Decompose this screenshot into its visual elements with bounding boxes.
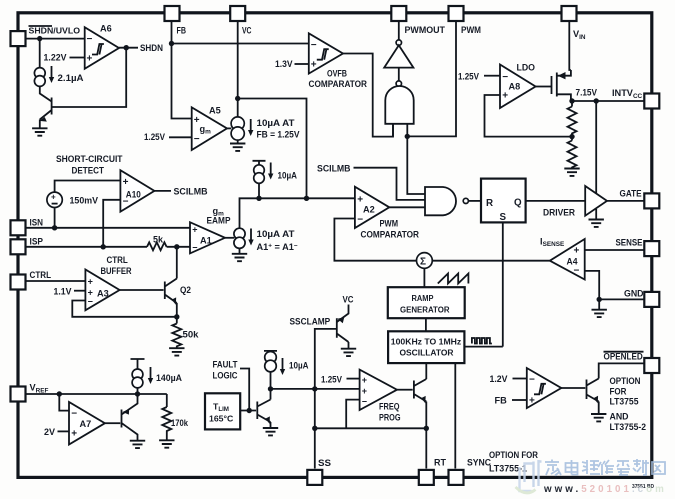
pin GND <box>644 292 659 307</box>
svg-text:1.22V: 1.22V <box>44 53 68 63</box>
op-amp FREQ PROG <box>360 370 397 410</box>
svg-text:VC: VC <box>242 26 252 36</box>
pin PWM <box>449 6 464 21</box>
svg-text:50k: 50k <box>183 330 200 340</box>
wire 7.15V to INTVCC pin <box>572 100 645 102</box>
svg-text:−: − <box>87 34 93 45</box>
node SS fault <box>312 386 317 391</box>
wire node down to horizontal NAND input <box>407 136 425 194</box>
svg-text:−: − <box>194 134 200 145</box>
pin ISP <box>11 239 26 254</box>
wire INTVCC down to driver <box>595 102 597 194</box>
op-amp A2 PWM comparator <box>355 187 389 228</box>
wire ramp to oscillator <box>425 318 427 331</box>
node 7.15V <box>569 98 574 103</box>
pin SS <box>307 470 322 485</box>
wire 1.25V to FREQ PROG + <box>347 378 360 380</box>
wire emitter to ground <box>598 402 600 414</box>
current source 2.1uA <box>34 68 45 79</box>
wire A10 - input down to ISP wire <box>103 200 120 247</box>
wire PWM pin down and to node <box>407 20 456 136</box>
ground below PNP <box>130 441 145 448</box>
svg-text:140µA: 140µA <box>156 373 182 383</box>
pin SYNC <box>449 470 464 485</box>
svg-text:−: − <box>574 266 580 277</box>
wire 1.22V to A6 + input <box>70 57 85 59</box>
svg-text:+: + <box>529 396 535 407</box>
svg-text:BUFFER: BUFFER <box>101 266 132 276</box>
inverter output bubble <box>396 40 401 45</box>
wire collector to oscillator <box>425 363 427 379</box>
wire FB to OVFB comparator <box>172 43 309 45</box>
svg-text:Q: Q <box>514 198 522 209</box>
svg-text:−: − <box>311 40 317 51</box>
svg-text:ISP: ISP <box>30 237 44 247</box>
op-amp A8 LDO <box>500 65 536 109</box>
pin VREF <box>11 387 26 402</box>
wire driver to ground <box>595 209 597 219</box>
pin SHDN/UVLO <box>11 31 26 46</box>
svg-text:SENSE: SENSE <box>616 238 643 248</box>
op-amp A1 gm EAMP <box>190 222 225 253</box>
ground below SSCLAMP <box>341 349 356 356</box>
wire A4 output to summer <box>432 260 550 262</box>
node A7 branch <box>57 391 62 396</box>
svg-text:1.1V: 1.1V <box>54 287 73 297</box>
op-amp A5 gm <box>192 107 227 150</box>
svg-text:10µA: 10µA <box>289 361 309 371</box>
svg-text:+: + <box>88 277 93 287</box>
node VC branch <box>235 96 240 101</box>
node INTVCC driver feed <box>594 98 599 103</box>
wire source to node <box>270 372 272 389</box>
transistor freq NPN <box>414 379 426 402</box>
wire A4 - to GND net <box>585 271 600 300</box>
svg-text:10µA AT: 10µA AT <box>257 229 295 239</box>
arrow 140uA <box>148 367 153 384</box>
svg-text:LT3755-1: LT3755-1 <box>489 464 527 474</box>
node A6 output SHDN <box>124 45 129 50</box>
svg-text:−: − <box>88 297 93 307</box>
pin RT <box>419 470 434 485</box>
svg-text:−: − <box>71 409 77 420</box>
svg-text:SCILMB: SCILMB <box>174 187 208 197</box>
svg-text:10µA AT: 10µA AT <box>257 118 295 128</box>
wire collector to OPENLED pin <box>599 363 645 378</box>
svg-text:VC: VC <box>343 295 354 305</box>
wire A8 output to MOSFET gate <box>536 86 551 88</box>
hysteresis symbol A6 <box>92 44 104 55</box>
svg-text:A5: A5 <box>209 106 221 116</box>
ground below divider <box>564 169 579 176</box>
wire SENSE pin to A4 + <box>585 249 645 251</box>
wire oscillator to latch S <box>464 346 502 348</box>
svg-text:FOR: FOR <box>610 386 627 396</box>
NAND left leg <box>392 124 394 137</box>
pin SENSE <box>644 241 659 256</box>
wire ISN pin to A1 + input <box>25 227 190 229</box>
TLIM box <box>205 393 240 429</box>
wire fault node to SS net <box>271 388 360 390</box>
NAND right leg <box>406 124 408 137</box>
wire inverter to NAND bubble <box>398 68 400 81</box>
svg-text:EAMP: EAMP <box>207 216 231 226</box>
wire Q2 collector up to ISP node <box>176 247 178 279</box>
svg-text:−: − <box>362 397 367 407</box>
svg-text:1.25V: 1.25V <box>144 132 166 142</box>
resistor 50k <box>172 324 181 348</box>
wire source to transistor collector <box>40 86 52 101</box>
wire SSCLAMP collector to ground <box>348 342 350 348</box>
op-amp OVFB comparator <box>309 33 343 73</box>
pin PWMOUT <box>391 6 406 21</box>
node PWM junction <box>405 134 410 139</box>
ground below OPENLED NPN <box>591 414 606 421</box>
svg-text:Q2: Q2 <box>180 285 191 295</box>
svg-text:FREQ: FREQ <box>379 402 400 412</box>
node feedback 50k <box>174 314 179 319</box>
hysteresis symbol OVFB <box>317 49 329 60</box>
wire A10 output <box>154 190 171 192</box>
svg-text:GND: GND <box>624 289 644 299</box>
arrow 10uA FB <box>248 119 253 136</box>
svg-text:LT3755: LT3755 <box>610 397 639 407</box>
wire 1.25V to A8 - <box>484 75 500 77</box>
RAMP GENERATOR box <box>388 287 465 318</box>
wire emitter to ground <box>270 422 272 427</box>
wire A3 output to Q2 base <box>120 289 164 291</box>
wire emitter to RT pin <box>425 402 427 469</box>
svg-text:CTRL: CTRL <box>107 255 129 265</box>
svg-text:OVFB: OVFB <box>327 69 347 79</box>
svg-text:A1: A1 <box>200 236 212 246</box>
wire Q2 emitter down <box>176 303 178 324</box>
wire 5k to A1 - input <box>167 246 190 248</box>
wire 1.2V to comparator - <box>513 378 527 380</box>
wire FB to comparator + <box>512 399 527 401</box>
pin VIN <box>562 6 577 21</box>
op-amp A4 sense amp <box>550 239 585 280</box>
wire tap to A8 + input <box>485 95 573 137</box>
vertical NAND output bubble <box>396 81 401 86</box>
base wire from A6 output feedback <box>52 48 127 107</box>
arrow 10uA A1 <box>248 229 253 246</box>
resistor divider top <box>568 101 577 137</box>
wire SCILMB to horizontal NAND input <box>354 168 426 200</box>
svg-text:2V: 2V <box>44 427 56 437</box>
wire NAND to RS latch <box>468 200 481 202</box>
wire SHDN/UVLO pin to A6 inverting input <box>25 38 85 40</box>
svg-text:A7: A7 <box>80 419 92 429</box>
pin OPENLED <box>644 358 659 373</box>
MOSFET pass transistor <box>552 70 571 101</box>
svg-text:−: − <box>192 243 197 253</box>
svg-text:SHDN: SHDN <box>140 43 163 53</box>
NAND output bubble <box>463 198 468 203</box>
wire collector up to 10uA node <box>270 389 272 400</box>
svg-text:FB = 1.25V: FB = 1.25V <box>257 130 301 140</box>
wire VREF pin <box>25 393 167 395</box>
wire TLIM to NPN base <box>240 410 256 412</box>
wire 150mV top to A10 + input <box>55 181 121 192</box>
svg-text:SSCLAMP: SSCLAMP <box>290 317 331 327</box>
svg-text:R: R <box>486 198 493 209</box>
svg-text:−: − <box>502 72 508 83</box>
svg-text:10µA: 10µA <box>278 171 298 181</box>
wire feedback line <box>315 427 427 429</box>
svg-text:GENERATOR: GENERATOR <box>400 304 450 314</box>
current source 10uA fault rail <box>264 350 277 353</box>
ground below 170k <box>159 440 174 447</box>
svg-text:GATE: GATE <box>620 189 642 199</box>
wire VC pin down <box>237 20 239 118</box>
wire A1 node up to comparator line <box>240 198 355 228</box>
svg-text:+: + <box>362 386 367 396</box>
svg-text:5k: 5k <box>153 235 164 245</box>
horizontal NAND gate <box>425 187 456 215</box>
op-amp A10 <box>120 170 154 212</box>
svg-text:PWMOUT: PWMOUT <box>405 25 446 35</box>
svg-text:1.3V: 1.3V <box>275 59 293 69</box>
wire node down to A7 - input <box>59 394 69 411</box>
op-amp A3 ctrl buffer <box>85 270 119 311</box>
wire summer down to ramp generator <box>423 268 425 287</box>
svg-text:+: + <box>87 54 93 65</box>
svg-text:LDO: LDO <box>517 63 536 73</box>
node RT feedback <box>424 426 429 431</box>
svg-text:1.25V: 1.25V <box>321 375 343 385</box>
ground below driver <box>589 220 604 227</box>
svg-text:1.25V: 1.25V <box>458 72 480 82</box>
svg-text:A1+ = A1−: A1+ = A1− <box>257 242 298 252</box>
svg-text:+: + <box>311 60 317 71</box>
svg-text:150mV: 150mV <box>70 196 99 206</box>
node on ISN wire <box>52 225 57 230</box>
svg-text:LT3755-2: LT3755-2 <box>610 422 647 432</box>
driver buffer <box>585 186 607 216</box>
wire VREF to 170k <box>166 394 168 407</box>
wire A1 output to source <box>225 237 234 239</box>
pin VC <box>230 6 245 21</box>
svg-text:+: + <box>192 225 197 235</box>
wire 150mV bottom to ISN wire <box>54 208 56 228</box>
current source 140uA rail <box>131 359 145 369</box>
wire GND pin to node <box>599 298 645 300</box>
svg-text:DRIVER: DRIVER <box>543 208 575 218</box>
svg-text:LOGIC: LOGIC <box>213 371 238 381</box>
svg-text:PWM: PWM <box>380 219 399 229</box>
wire A5 output to source <box>227 127 231 129</box>
pin ISN <box>11 220 26 235</box>
svg-text:A10: A10 <box>126 190 141 200</box>
ground below fault NPN <box>263 428 278 435</box>
svg-text:www.520101.com: www.520101.com <box>543 484 667 495</box>
node SS freq fb <box>312 426 317 431</box>
arrow 2.1uA <box>49 66 54 83</box>
node fault output <box>268 386 273 391</box>
svg-text:PROG: PROG <box>379 413 401 423</box>
resistor 170k <box>162 407 171 440</box>
svg-text:A4: A4 <box>567 257 579 267</box>
resistor divider bottom <box>568 137 577 168</box>
svg-text:COMPARATOR: COMPARATOR <box>309 79 368 89</box>
wire node down to 2.1uA source <box>39 39 41 68</box>
svg-text:FB: FB <box>495 396 508 406</box>
wire A2 - input to summer <box>334 219 416 261</box>
wire ISP pin to 5k resistor <box>25 246 147 248</box>
current source 10uA SCILMB rail <box>253 161 266 165</box>
svg-text:FB: FB <box>177 26 187 36</box>
transistor PNP reference <box>122 394 138 440</box>
wire CTRL pin to A3 <box>25 280 85 282</box>
svg-text:SS: SS <box>318 458 331 468</box>
wire A3 - feedback <box>72 301 177 317</box>
node Q2 collector branch <box>174 244 179 249</box>
wire A7 output to PNP base <box>105 422 120 424</box>
wire SYNC pin to oscillator <box>454 363 456 468</box>
svg-text:+: + <box>51 193 56 202</box>
current source 10uA A1 <box>234 228 245 239</box>
transistor fault NPN <box>257 400 270 423</box>
wire FAULT LOGIC bracket <box>240 369 249 411</box>
svg-text:OPTION: OPTION <box>610 376 641 386</box>
wire PWMOUT pin down to inverter bubble <box>398 20 400 40</box>
RS latch box <box>481 179 526 223</box>
node FB branch <box>169 41 174 46</box>
node VC branch on comparator line <box>304 196 309 201</box>
node GND <box>597 297 602 302</box>
voltage source 150mV <box>47 192 62 207</box>
svg-text:RAMP: RAMP <box>412 293 434 303</box>
node on SHDN/UVLO wire <box>37 36 42 41</box>
op-amp A7 <box>69 402 105 445</box>
ground below 50k <box>169 348 184 355</box>
wire driver to GATE pin <box>607 200 645 202</box>
svg-text:2.1µA: 2.1µA <box>58 73 84 83</box>
svg-text:SCILMB: SCILMB <box>317 164 351 174</box>
pin GATE <box>644 193 659 208</box>
svg-text:170k: 170k <box>171 418 189 428</box>
svg-text:A6: A6 <box>100 24 112 34</box>
wire FB pin down <box>172 20 192 119</box>
node divider tap <box>569 134 574 139</box>
summer sigma <box>417 253 433 269</box>
svg-text:+: + <box>502 91 508 102</box>
arrow 10uA fault <box>280 358 285 375</box>
wire A2 output to NAND <box>389 206 425 208</box>
svg-text:−: − <box>357 215 363 226</box>
svg-text:165°C: 165°C <box>209 414 234 424</box>
arrow 10uA <box>268 163 273 180</box>
vertical NAND gate body <box>385 86 413 124</box>
node fault <box>247 408 252 413</box>
svg-text:RT: RT <box>434 458 446 468</box>
transistor (UVLO pulldown NPN) <box>40 98 52 128</box>
svg-text:100KHz TO 1MHz: 100KHz TO 1MHz <box>391 336 462 346</box>
svg-text:1.2V: 1.2V <box>490 374 509 384</box>
svg-text:+: + <box>362 375 367 385</box>
ground below A5 source <box>237 140 239 143</box>
svg-text:SHORT-CIRCUIT: SHORT-CIRCUIT <box>56 154 123 164</box>
wire VC branch to A2 node <box>238 99 307 199</box>
svg-text:FAULT: FAULT <box>213 360 238 370</box>
svg-text:AND: AND <box>610 412 629 422</box>
comparator OPENLED <box>527 368 562 408</box>
node A10- on ISP wire <box>101 244 106 249</box>
svg-text:SYNC: SYNC <box>467 458 491 468</box>
current source 10uA at FB (on VC line) <box>231 117 244 130</box>
node 10uA on comparator line <box>256 196 261 201</box>
wire SS net to SSCLAMP base <box>315 329 337 469</box>
svg-text:PWM: PWM <box>461 25 481 35</box>
wire 140uA to node <box>137 388 139 394</box>
wire A6 output <box>119 47 138 49</box>
pin FB <box>165 6 180 21</box>
svg-text:OPTION FOR: OPTION FOR <box>489 450 538 460</box>
wire VC down to SSCLAMP emitter <box>337 305 349 323</box>
wire latch S down to oscillator <box>502 222 504 346</box>
svg-text:7.15V: 7.15V <box>576 88 598 98</box>
svg-text:+: + <box>574 246 580 257</box>
wire 1.1V to A3 <box>74 290 85 292</box>
ground below A1 source <box>239 248 241 253</box>
svg-text:A3: A3 <box>97 289 109 299</box>
wire node to ground <box>598 299 600 309</box>
svg-text:Σ: Σ <box>420 257 426 268</box>
sawtooth symbol <box>438 274 469 284</box>
pin INTVCC <box>644 94 659 109</box>
op-amp A6 comparator <box>85 27 119 69</box>
transistor Q2 <box>165 279 177 304</box>
label VIN wire down <box>569 20 571 70</box>
svg-text:+: + <box>123 177 129 188</box>
svg-text:COMPARATOR: COMPARATOR <box>361 230 420 240</box>
resistor 5k <box>147 242 167 250</box>
wire latch Q to driver <box>526 200 586 202</box>
svg-text:+: + <box>71 429 77 440</box>
ground symbol GND net <box>592 310 607 317</box>
node 140uA <box>135 391 140 396</box>
svg-text:OPENLED: OPENLED <box>604 352 644 362</box>
pulse train symbol <box>472 338 492 344</box>
transistor SSCLAMP PNP <box>337 318 349 342</box>
svg-text:S: S <box>500 212 507 223</box>
svg-text:ISN: ISN <box>30 218 44 228</box>
wire comparator to NPN base <box>561 387 585 389</box>
watermark chinese text <box>545 459 665 476</box>
OSCILLATOR box <box>388 331 464 363</box>
wire 2V to A7 + <box>58 430 70 432</box>
ground below transistor <box>32 128 47 135</box>
wire source down to node <box>258 183 260 198</box>
wire OVFB output to vertical NAND left leg <box>343 54 393 137</box>
svg-text:−: − <box>529 375 535 386</box>
wire 1.25V to A5 - input <box>169 136 192 138</box>
svg-text:A8: A8 <box>509 82 521 92</box>
watermark logo <box>516 460 542 493</box>
svg-text:CTRL: CTRL <box>30 270 52 280</box>
svg-text:DETECT: DETECT <box>72 166 105 176</box>
transistor OPENLED NPN <box>587 379 599 402</box>
inverter (PWMOUT driver) <box>384 45 413 67</box>
svg-text:SHDN/UVLO: SHDN/UVLO <box>29 26 81 36</box>
svg-text:OSCILLATOR: OSCILLATOR <box>400 348 455 358</box>
pin CTRL <box>11 275 26 290</box>
wire 1.3V to OVFB + <box>295 63 309 65</box>
wire FREQ output to NPN base <box>397 389 413 391</box>
wire FREQ - feedback <box>346 400 359 429</box>
svg-text:A2: A2 <box>363 205 375 215</box>
